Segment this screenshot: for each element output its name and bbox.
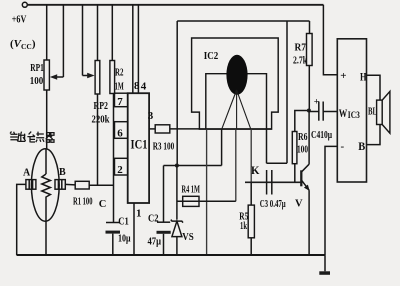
svg-text:R1 100: R1 100 — [73, 197, 93, 208]
pin 6 box — [115, 122, 128, 139]
op-amp IC1 box — [128, 93, 149, 203]
wire K node to base (through C3) — [245, 181, 301, 183]
svg-text:+6V: +6V — [12, 13, 27, 25]
wire pad K down — [250, 129, 252, 182]
svg-text:7: 7 — [117, 96, 123, 108]
wire A to left — [17, 184, 26, 255]
resistor R1 — [75, 181, 89, 189]
IC2 bond wires — [222, 90, 251, 129]
wire pad 266 up — [266, 129, 268, 163]
capacitor C3 — [267, 170, 272, 195]
resistor R7 — [309, 21, 311, 34]
potentiometer RP2 — [95, 61, 100, 95]
wire dot down to R4/VS — [176, 166, 178, 220]
svg-text:VS: VS — [182, 232, 194, 243]
capacitor C2 top wire — [163, 166, 165, 223]
svg-text:220k: 220k — [92, 115, 110, 126]
wire top rail — [27, 4, 323, 6]
svg-text:IC2: IC2 — [204, 51, 219, 62]
wire bottom-left segment C2 to pad — [164, 165, 222, 167]
capacitor C2 — [157, 221, 170, 223]
svg-text:C410μ: C410μ — [311, 130, 332, 141]
svg-text:6: 6 — [117, 127, 123, 139]
svg-text:R3 100: R3 100 — [153, 142, 175, 153]
svg-text:47μ: 47μ — [148, 237, 162, 248]
resistor R3 — [155, 125, 170, 133]
capacitor C1 — [106, 222, 120, 224]
wire pin column down to C1 — [113, 93, 115, 222]
svg-text:H: H — [360, 70, 367, 84]
capacitor C4 — [309, 111, 319, 113]
sensor bottom wire to rail — [45, 221, 47, 255]
wire pad up to board — [221, 129, 223, 165]
svg-text:100: 100 — [30, 76, 44, 87]
wire IC1 pin 8 — [132, 5, 134, 93]
svg-text:RP1: RP1 — [30, 63, 44, 74]
resistor R4 — [177, 200, 236, 202]
svg-text:1k: 1k — [240, 221, 247, 232]
svg-text:R2: R2 — [115, 68, 124, 79]
svg-text:C1: C1 — [118, 217, 129, 228]
svg-text:+: + — [314, 98, 319, 108]
wire RP2 top lead — [97, 5, 99, 61]
wire RP1 top lead — [46, 5, 48, 60]
node junction dot — [307, 109, 311, 113]
wire bracket left edge down — [176, 21, 178, 166]
wire B to speaker — [367, 125, 381, 145]
svg-text:A: A — [23, 168, 31, 179]
svg-text:1: 1 — [136, 208, 142, 220]
svg-text:R7: R7 — [295, 43, 307, 54]
wire R2 top lead — [111, 5, 113, 61]
svg-text:C3 0.47μ: C3 0.47μ — [260, 199, 286, 210]
wire IC3 minus to ground — [325, 146, 337, 255]
svg-text:1M: 1M — [115, 82, 124, 93]
node dot junction — [175, 164, 179, 168]
sensor internal lead — [45, 149, 47, 174]
svg-text:10μ: 10μ — [118, 234, 131, 245]
pin 1 lead — [133, 203, 135, 255]
svg-text:-: - — [341, 141, 345, 153]
svg-text:W: W — [339, 108, 348, 120]
wire bracket right edge — [267, 21, 288, 163]
wire B to R1 — [65, 183, 75, 186]
IC2 board stepped outline — [192, 38, 279, 129]
pin 7 box — [115, 93, 128, 107]
wire RP2 wiper arrow — [83, 5, 89, 76]
svg-text:B: B — [358, 139, 365, 153]
svg-text:R6: R6 — [298, 132, 308, 143]
svg-text:C: C — [99, 199, 107, 210]
gas sensor ellipse — [31, 149, 59, 221]
svg-text:C2: C2 — [148, 214, 159, 225]
svg-text:K: K — [251, 163, 260, 177]
wire R1 to node C / pin2 column — [89, 184, 113, 186]
svg-text:RP2: RP2 — [94, 101, 109, 112]
resistor R6 — [295, 111, 309, 132]
wire R3 to IC2 board bottom — [170, 128, 272, 130]
svg-text:B: B — [59, 167, 66, 178]
wire pad to R4 — [235, 129, 237, 201]
resistor R2 — [110, 61, 115, 94]
wire RP1 to sensor — [46, 90, 48, 149]
wire RP2 bottom to node C — [97, 94, 99, 185]
svg-text:4: 4 — [141, 80, 147, 92]
pin 2 box — [115, 158, 128, 175]
audio amplifier IC3 — [337, 39, 366, 182]
wire bracket: pin4-line over IC2 — [177, 20, 309, 22]
svg-text:8: 8 — [134, 80, 140, 92]
zener diode VS — [171, 220, 183, 223]
IC2 COB blob — [226, 55, 247, 95]
wire RP1 wiper arrow — [55, 5, 63, 77]
gas sensor label — [10, 132, 54, 143]
svg-text:2.7k: 2.7k — [293, 56, 307, 67]
IC2 inner rect — [206, 74, 267, 130]
svg-text:IC3: IC3 — [348, 111, 360, 121]
svg-text:+: + — [340, 70, 346, 82]
svg-text:3: 3 — [148, 110, 154, 122]
svg-text:V: V — [295, 199, 303, 210]
ground — [324, 255, 326, 271]
wire ground pad down — [206, 129, 208, 255]
svg-text:2: 2 — [117, 164, 123, 176]
sensor zigzag resistor — [42, 174, 51, 221]
wire rail down to IC3 + — [323, 5, 337, 75]
resistor R5 — [250, 182, 252, 205]
svg-text:R4 1M: R4 1M — [182, 185, 201, 196]
svg-text:BL: BL — [368, 107, 377, 118]
svg-text:IC1: IC1 — [131, 137, 148, 151]
speaker BL — [377, 100, 383, 124]
potentiometer RP1 — [44, 60, 49, 90]
transistor V — [300, 170, 302, 186]
wire bottom rail — [17, 254, 325, 256]
wire IC1 pin 4 — [137, 5, 139, 93]
svg-text:100: 100 — [297, 145, 308, 156]
+6V supply terminal — [22, 2, 27, 7]
wire H to speaker — [367, 75, 381, 100]
